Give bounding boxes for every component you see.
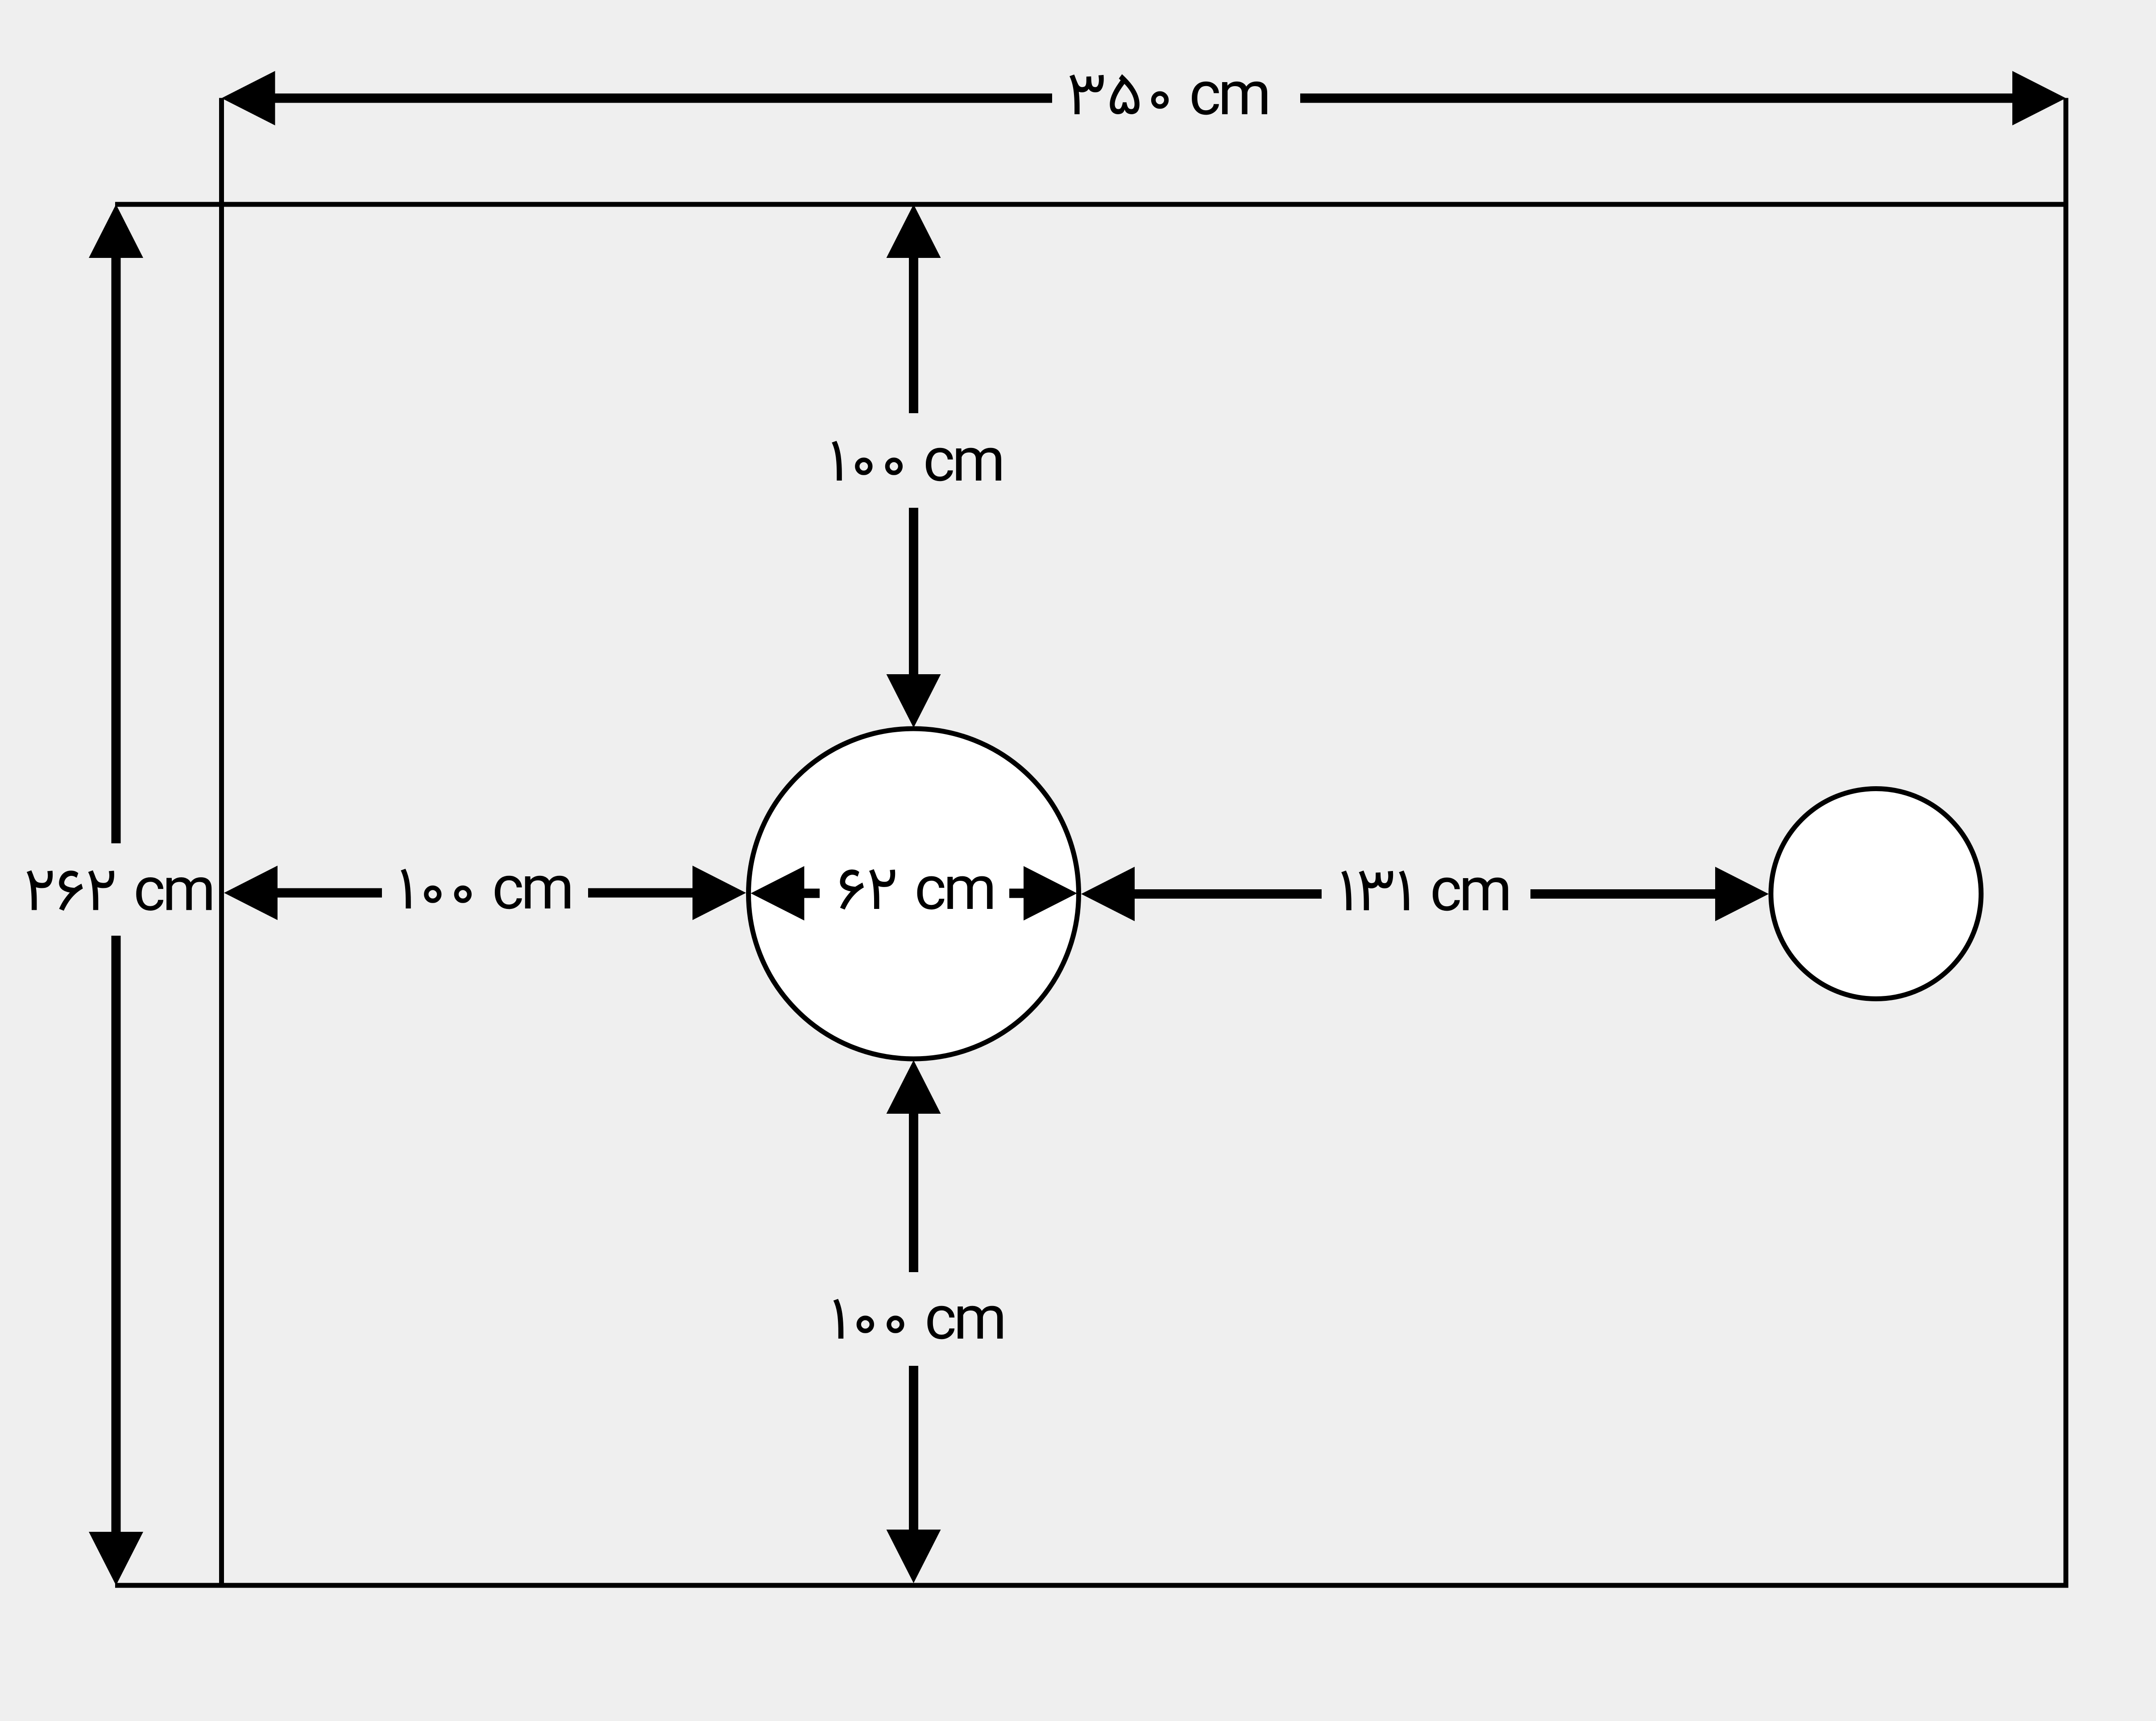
dimension 350 cm line [222,71,2066,125]
label 131 cm [1341,871,1508,911]
dimension 100 cm bottom line [887,1060,941,1583]
dimension 131 cm line [1081,867,1769,921]
label 262 cm [27,871,211,911]
dimension 262 cm line [89,204,143,1585]
small circle [1771,789,1981,999]
dimension 100 cm top line [887,204,941,728]
label 62 cm [840,869,993,909]
large circle (62 cm) [749,729,1079,1059]
label 350 cm [1070,74,1267,115]
label 100 cm bottom [833,1299,1003,1339]
label 100 cm left [401,869,570,909]
label 100 cm top [832,441,1001,481]
room rectangle outline with extension lines [115,98,2069,1588]
dimension 100 cm left line [224,866,746,920]
dimension 62 cm inside circle [751,866,1078,921]
